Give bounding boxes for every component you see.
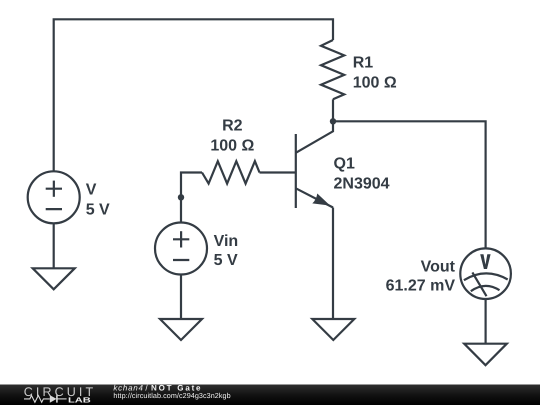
footer bar [0,385,540,405]
wire V- to ground [53,223,55,268]
svg-text:5 V: 5 V [86,201,110,218]
CircuitLab logo zigzag-diode glyph [24,395,67,403]
svg-text:http://circuitlab.com/c294g3c3: http://circuitlab.com/c294g3c3n2kgb [113,391,230,400]
svg-text:100 Ω: 100 Ω [210,138,254,155]
wire R1 bottom to node A [332,99,334,121]
wire top rail from V+ to R1 top [54,19,333,171]
ground (left, below V) [33,268,75,289]
voltmeter Vout [386,248,511,299]
transistor Q1 [296,121,390,208]
ground (below Q1 emitter) [312,319,354,340]
svg-text:61.27 mV: 61.27 mV [386,278,456,295]
wire Q1 emitter to ground [332,208,334,320]
wire R2 left lead down to Vin [181,173,202,223]
wire R2 to Q1 base [260,171,296,173]
svg-text:Vin: Vin [214,233,239,250]
svg-text:2N3904: 2N3904 [334,176,390,193]
voltage source Vin [155,223,238,275]
svg-text:Q1: Q1 [334,155,355,172]
ground (below Vin) [160,319,202,340]
svg-text:V: V [86,182,97,199]
resistor R2 [202,118,260,184]
footer text kchan4 / NOT Gate [113,383,230,400]
voltage source V [28,171,110,223]
node junction dot at Vin [178,194,184,200]
wire node A to voltmeter top [333,121,486,248]
svg-text:Vout: Vout [421,258,456,275]
wire Vin- to ground [180,275,182,320]
svg-text:LAB: LAB [68,396,92,405]
node A junction dot [330,118,336,124]
svg-text:5 V: 5 V [214,252,238,269]
svg-text:R2: R2 [222,118,243,135]
svg-text:100 Ω: 100 Ω [353,74,397,91]
svg-text:R1: R1 [353,55,374,72]
ground (below voltmeter) [464,344,507,366]
resistor R1 [321,40,397,99]
wire voltmeter to ground [485,299,487,344]
